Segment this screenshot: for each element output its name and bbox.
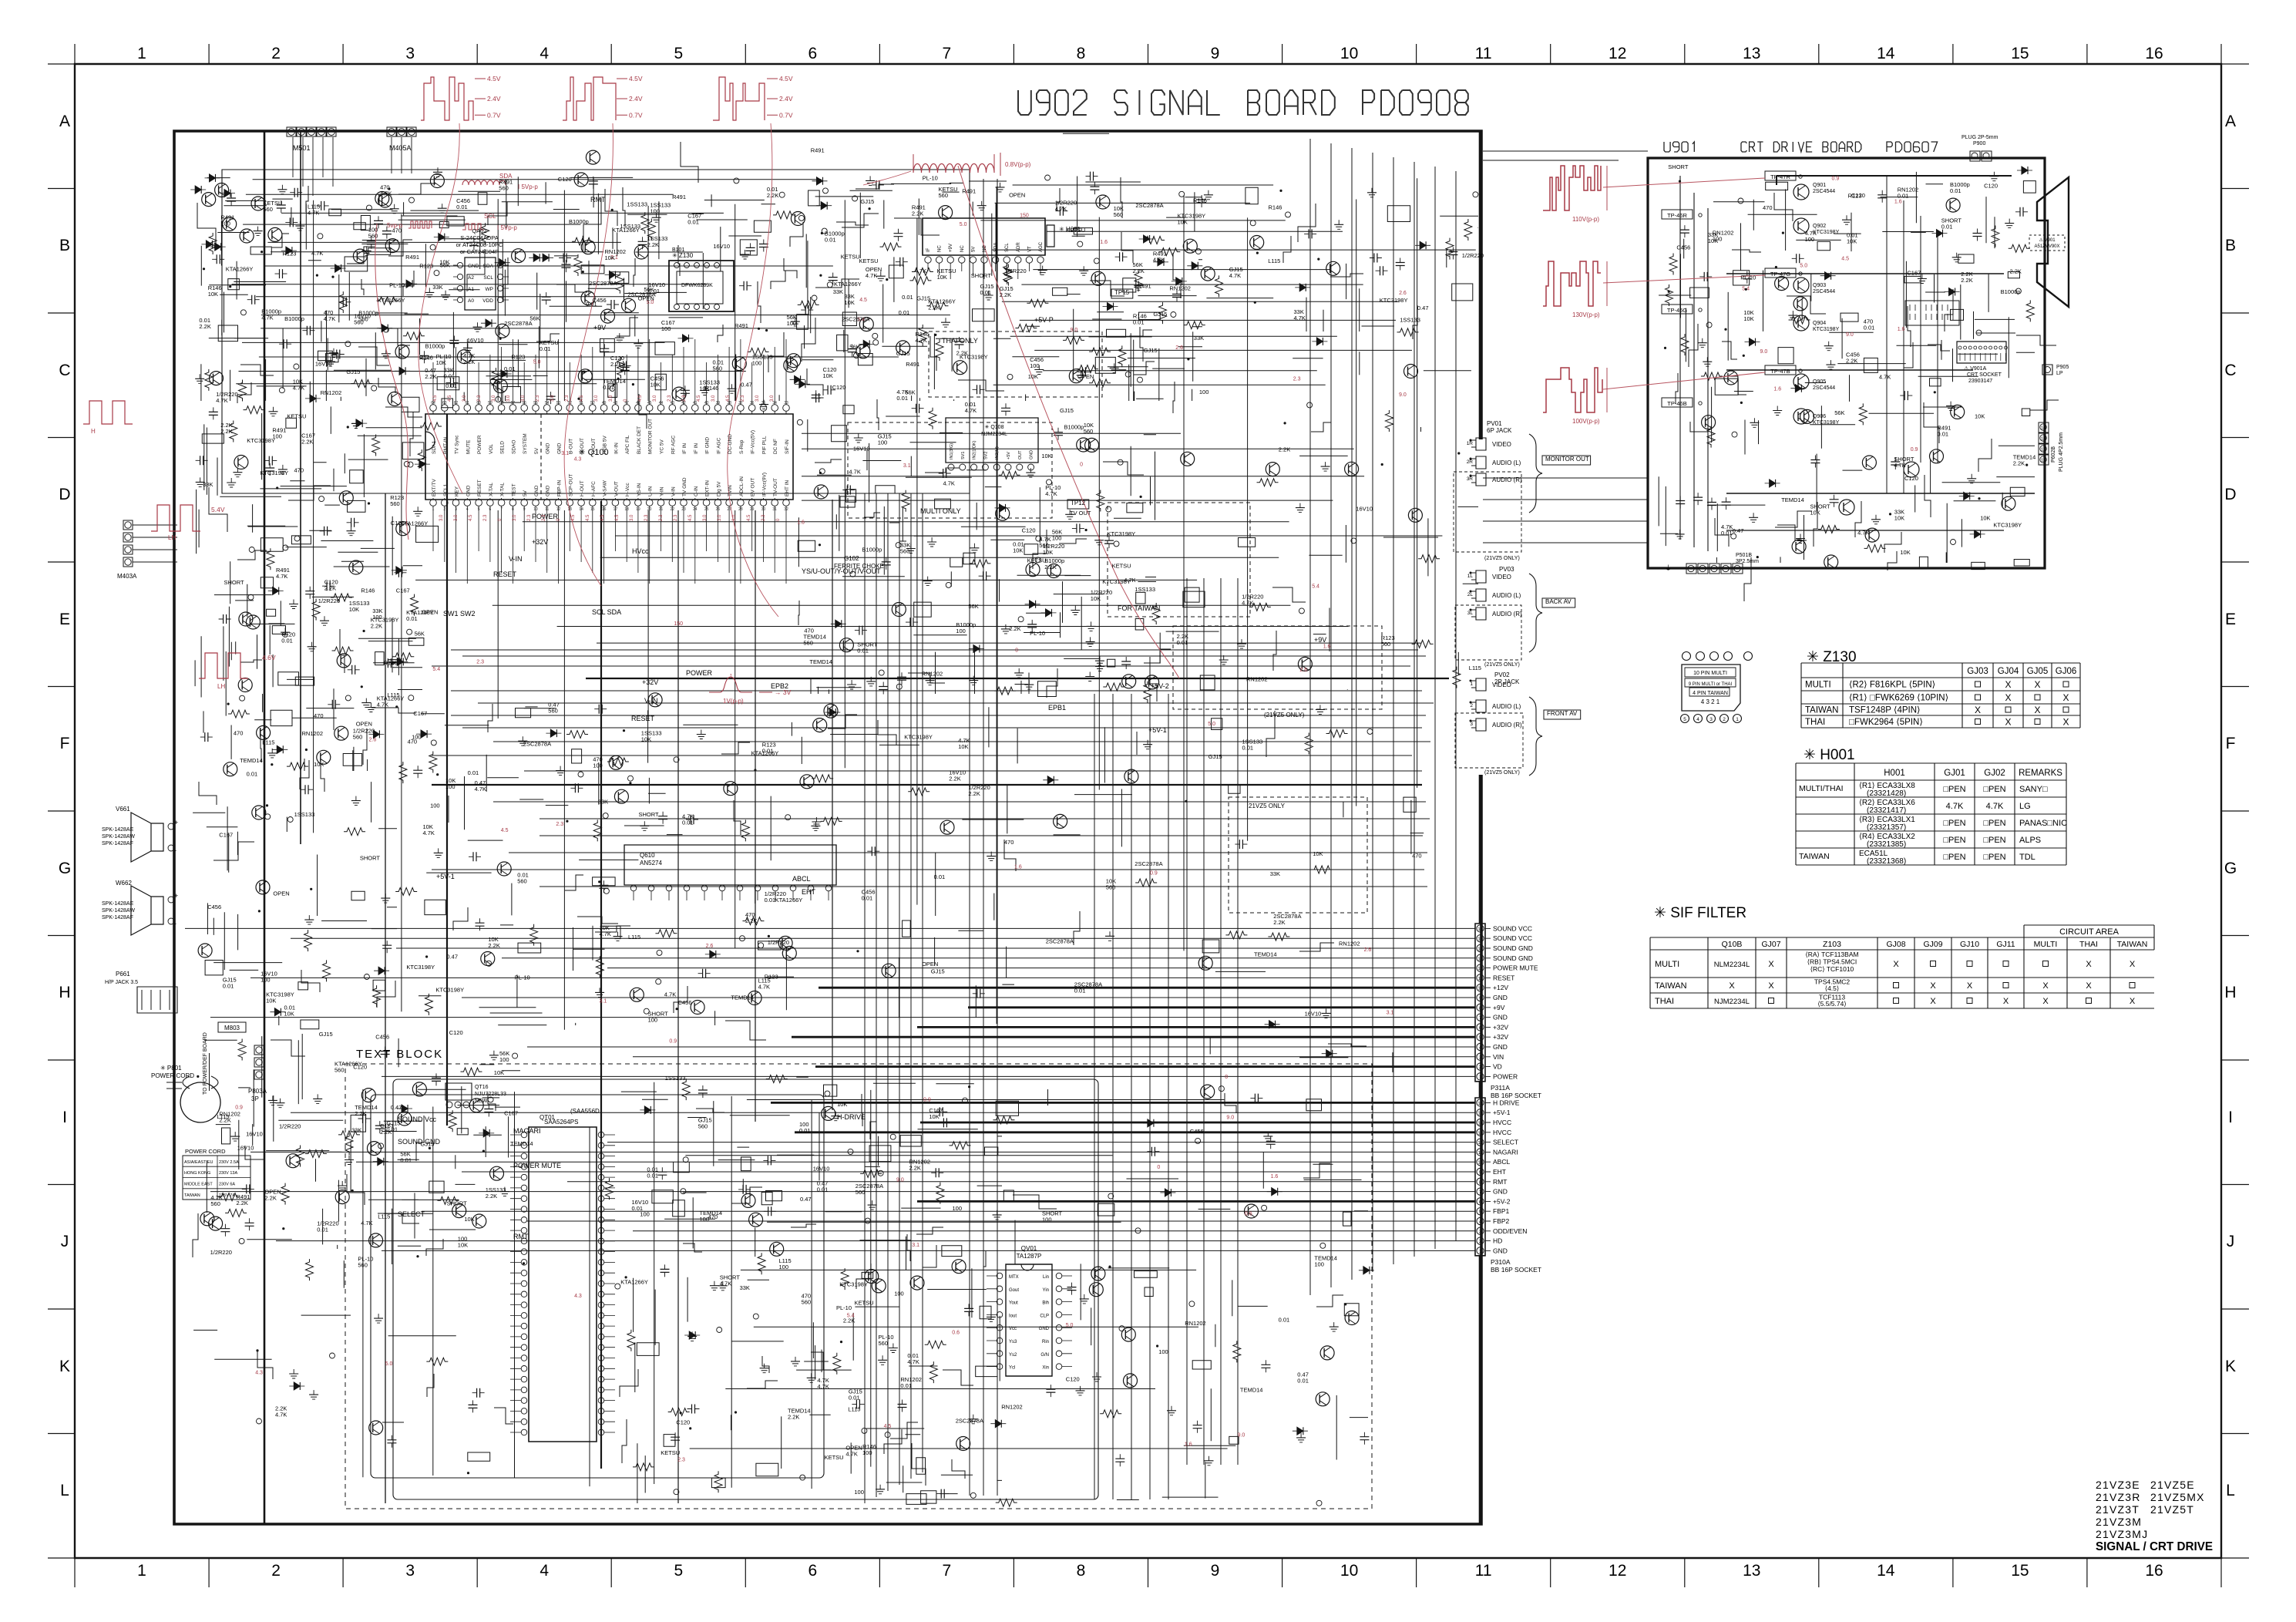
svg-text:TEST: TEST <box>511 483 516 496</box>
svg-text:56K: 56K <box>968 603 978 610</box>
svg-text:KTC3198Y: KTC3198Y <box>406 964 435 971</box>
svg-text:SDA: SDA <box>994 243 999 252</box>
svg-text:0.01: 0.01 <box>445 382 457 389</box>
svg-text:100: 100 <box>661 325 671 332</box>
svg-text:P661: P661 <box>116 971 130 978</box>
svg-text:11: 11 <box>1475 1562 1492 1580</box>
svg-text:5.4: 5.4 <box>432 667 440 672</box>
svg-text:TV OUT: TV OUT <box>1070 510 1091 517</box>
svg-text:ADR: ADR <box>1017 242 1021 252</box>
svg-text:REMARKS: REMARKS <box>2019 769 2062 778</box>
svg-text:ODD/EVEN: ODD/EVEN <box>1493 1227 1527 1235</box>
svg-text:16V10: 16V10 <box>1356 506 1373 513</box>
svg-text:100: 100 <box>779 1264 789 1270</box>
svg-text:35: 35 <box>761 401 766 405</box>
svg-text:31: 31 <box>772 507 777 512</box>
svg-text:SCL1: SCL1 <box>443 483 449 496</box>
svg-text:2SC2878A: 2SC2878A <box>1046 937 1074 944</box>
svg-text:470: 470 <box>294 466 304 473</box>
svg-text:560: 560 <box>803 640 813 647</box>
svg-text:3L: 3L <box>1467 611 1474 616</box>
svg-text:B1000p: B1000p <box>569 218 589 225</box>
svg-text:0: 0 <box>1080 463 1083 468</box>
svg-text:Rin: Rin <box>1042 1340 1049 1344</box>
svg-text:6: 6 <box>808 1562 817 1580</box>
svg-text:6: 6 <box>808 45 817 62</box>
svg-text:Ι 5Vp-p: Ι 5Vp-p <box>497 224 517 231</box>
svg-text:⟨RB⟩ TPS4.5MCI: ⟨RB⟩ TPS4.5MCI <box>1807 958 1857 966</box>
svg-text:RN1202: RN1202 <box>1339 941 1360 947</box>
svg-text:9: 9 <box>1211 1562 1220 1580</box>
svg-text:15: 15 <box>2011 1562 2029 1580</box>
svg-text:RESET: RESET <box>631 715 655 722</box>
svg-text:POWER CORD: POWER CORD <box>151 1072 194 1079</box>
svg-text:3.0: 3.0 <box>630 514 634 521</box>
svg-text:1/2R220: 1/2R220 <box>1462 252 1484 259</box>
svg-text:100V(p-p): 100V(p-p) <box>1572 418 1600 425</box>
svg-text:KETSU: KETSU <box>859 257 879 264</box>
svg-text:230V 6A: 230V 6A <box>219 1183 235 1187</box>
svg-text:4.7K: 4.7K <box>1242 599 1253 606</box>
svg-text:5: 5 <box>1479 1210 1481 1215</box>
svg-text:2.6: 2.6 <box>369 738 377 743</box>
svg-text:(21VZ5 ONLY): (21VZ5 ONLY) <box>1264 712 1305 718</box>
svg-text:13: 13 <box>1743 45 1760 62</box>
svg-text:16V10: 16V10 <box>246 1131 263 1138</box>
svg-text:AUDIO (L): AUDIO (L) <box>1492 459 1521 466</box>
svg-text:100: 100 <box>953 1205 963 1212</box>
svg-text:HVcc: HVcc <box>632 547 649 555</box>
svg-text:1.6: 1.6 <box>797 520 805 526</box>
svg-text:VT: VT <box>1027 246 1032 252</box>
svg-text:4.7K: 4.7K <box>293 384 304 391</box>
svg-text:11: 11 <box>2041 459 2046 463</box>
svg-text:0.01: 0.01 <box>799 1127 811 1134</box>
svg-text:L: L <box>2226 1482 2235 1499</box>
svg-text:0: 0 <box>1157 1165 1160 1170</box>
svg-text:4.3: 4.3 <box>574 1294 582 1299</box>
svg-text:OUT: OUT <box>1018 450 1023 459</box>
svg-text:RN1202: RN1202 <box>1185 1320 1206 1327</box>
svg-text:100: 100 <box>220 220 230 227</box>
svg-text:1/2R220: 1/2R220 <box>1004 268 1026 274</box>
svg-text:X: X <box>2062 692 2069 703</box>
svg-text:0.01: 0.01 <box>1297 1377 1309 1384</box>
svg-text:ALPS: ALPS <box>2019 836 2041 845</box>
svg-text:GJ05: GJ05 <box>2027 667 2049 676</box>
svg-text:MONITOR OUT: MONITOR OUT <box>648 419 654 454</box>
svg-text:AUDIO (R): AUDIO (R) <box>1492 722 1522 729</box>
svg-text:C120: C120 <box>1851 192 1865 199</box>
svg-text:C167: C167 <box>219 832 233 839</box>
svg-text:R491: R491 <box>962 188 976 195</box>
svg-text:GND: GND <box>466 485 471 496</box>
svg-text:F: F <box>60 735 70 752</box>
svg-text:5.0: 5.0 <box>533 360 541 365</box>
svg-text:6: 6 <box>1479 1200 1481 1205</box>
svg-text:7: 7 <box>500 507 503 512</box>
svg-text:560: 560 <box>499 184 509 191</box>
svg-text:2.3: 2.3 <box>476 660 484 665</box>
svg-text:X: X <box>2062 717 2069 728</box>
svg-text:TAIWAN: TAIWAN <box>184 1193 200 1198</box>
svg-text:9: 9 <box>523 507 526 512</box>
svg-text:(SAA556D: (SAA556D <box>570 1108 600 1115</box>
svg-text:TA1287P: TA1287P <box>1017 1253 1042 1260</box>
svg-text:H/P JACK 3.5: H/P JACK 3.5 <box>105 980 138 985</box>
svg-text:X: X <box>2130 960 2136 969</box>
svg-text:G: G <box>2224 860 2237 877</box>
svg-text:+5V-P: +5V-P <box>1034 316 1054 324</box>
svg-text:C120: C120 <box>832 384 846 391</box>
svg-text:2: 2 <box>1479 1065 1481 1070</box>
svg-text:KTA1266Y: KTA1266Y <box>226 265 254 272</box>
svg-text:15: 15 <box>1477 1112 1482 1116</box>
svg-text:SPK-1428AE: SPK-1428AE <box>102 901 134 907</box>
svg-text:4.5: 4.5 <box>448 395 452 402</box>
svg-text:Q905: Q905 <box>1813 379 1826 385</box>
svg-text:2SC4544: 2SC4544 <box>1813 189 1835 194</box>
svg-text:16: 16 <box>602 507 607 512</box>
svg-text:DC-GND: DC-GND <box>728 434 733 454</box>
svg-text:KETSU: KETSU <box>661 1449 680 1456</box>
svg-text:□PEN: □PEN <box>1983 785 2005 794</box>
svg-text:+32V: +32V <box>642 678 658 686</box>
svg-text:2.2K: 2.2K <box>788 1414 799 1421</box>
svg-text:X: X <box>1893 960 1899 969</box>
svg-text:2.6: 2.6 <box>1364 947 1372 953</box>
svg-text:2.2K: 2.2K <box>949 776 960 782</box>
svg-text:NJM2234L: NJM2234L <box>981 432 1007 437</box>
svg-text:4.7K: 4.7K <box>664 991 676 998</box>
svg-text:IF GND: IF GND <box>705 437 711 454</box>
svg-text:4.7K: 4.7K <box>308 210 319 217</box>
svg-text:GND: GND <box>546 443 551 454</box>
svg-text:0.6: 0.6 <box>952 1330 960 1335</box>
svg-text:2.3: 2.3 <box>483 514 488 521</box>
svg-text:(23321417): (23321417) <box>1867 806 1906 815</box>
svg-text:(23321357): (23321357) <box>1867 823 1906 832</box>
svg-text:GJ03: GJ03 <box>1967 667 1988 676</box>
svg-text:IN2(1/DK): IN2(1/DK) <box>973 440 977 459</box>
svg-text:R491: R491 <box>906 361 919 368</box>
svg-text:3.0: 3.0 <box>506 395 511 402</box>
svg-text:0.01: 0.01 <box>1133 319 1145 326</box>
svg-text:4.7K: 4.7K <box>276 573 287 580</box>
svg-text:5.0: 5.0 <box>960 222 967 227</box>
svg-text:4.7K: 4.7K <box>600 930 611 937</box>
svg-text:2.2K: 2.2K <box>486 1193 497 1200</box>
svg-text:I: I <box>62 1109 67 1126</box>
svg-text:2SC2878A: 2SC2878A <box>589 280 617 287</box>
svg-text:C167: C167 <box>504 1110 518 1117</box>
svg-text:100: 100 <box>1052 534 1062 541</box>
svg-text:NAGARI: NAGARI <box>1493 1148 1518 1156</box>
svg-text:SOUND GND: SOUND GND <box>1493 954 1533 962</box>
svg-text:0.7V: 0.7V <box>779 111 793 119</box>
svg-text:ASIA/EAST EU: ASIA/EAST EU <box>184 1160 213 1165</box>
svg-text:5.4: 5.4 <box>1312 584 1319 589</box>
svg-text:V-IN: V-IN <box>644 697 658 705</box>
svg-text:11: 11 <box>1475 45 1492 62</box>
svg-text:21VZ3R: 21VZ3R <box>2096 1491 2141 1503</box>
svg-text:0.47: 0.47 <box>1733 527 1744 534</box>
svg-text:1SS133: 1SS133 <box>294 811 315 818</box>
svg-text:R146: R146 <box>705 385 719 392</box>
svg-text:10K: 10K <box>1028 373 1038 380</box>
svg-text:21: 21 <box>659 507 664 512</box>
svg-text:2: 2 <box>443 507 445 512</box>
svg-text:⟨R2⟩ F816KPL ⟨5PIN⟩: ⟨R2⟩ F816KPL ⟨5PIN⟩ <box>1849 680 1935 690</box>
svg-text:560: 560 <box>900 548 910 555</box>
svg-text:PANAS□NIC: PANAS□NIC <box>2019 819 2067 828</box>
svg-text:21VZ3MJ: 21VZ3MJ <box>2096 1528 2148 1540</box>
svg-text:11: 11 <box>1478 1151 1483 1156</box>
svg-text:2.2K: 2.2K <box>1133 268 1145 274</box>
svg-text:KTC3198Y: KTC3198Y <box>1813 230 1840 235</box>
svg-text:J: J <box>2227 1233 2235 1250</box>
svg-text:4.7K: 4.7K <box>311 250 323 257</box>
svg-text:4.5: 4.5 <box>697 395 701 402</box>
svg-text:1.6: 1.6 <box>1898 327 1905 332</box>
svg-text:X: X <box>2042 981 2049 991</box>
svg-text:21VZ5MX: 21VZ5MX <box>2150 1491 2205 1503</box>
svg-text:Y-IN: Y-IN <box>660 486 665 496</box>
svg-text:4.7K: 4.7K <box>849 468 860 475</box>
svg-text:OPEN: OPEN <box>922 961 938 967</box>
svg-text:L115: L115 <box>262 739 274 746</box>
svg-text:P311A: P311A <box>1491 1084 1510 1092</box>
svg-text:44: 44 <box>659 401 664 405</box>
svg-text:2.3: 2.3 <box>667 395 672 402</box>
svg-text:TAIWAN: TAIWAN <box>1805 706 1838 715</box>
svg-text:10K: 10K <box>1847 237 1857 244</box>
svg-text:150: 150 <box>1020 214 1029 219</box>
svg-text:5.4V: 5.4V <box>211 506 225 513</box>
svg-text:C456: C456 <box>678 999 692 1006</box>
svg-text:2.4V: 2.4V <box>487 95 501 103</box>
svg-text:560: 560 <box>879 1340 889 1347</box>
svg-text:0: 0 <box>1225 1075 1228 1080</box>
svg-text:0.9: 0.9 <box>1832 176 1840 181</box>
svg-text:4.5: 4.5 <box>501 828 509 833</box>
svg-text:470: 470 <box>234 729 244 736</box>
svg-text:4.7K: 4.7K <box>1124 577 1135 584</box>
svg-text:10K: 10K <box>1313 850 1323 857</box>
svg-text:3.0: 3.0 <box>462 395 467 402</box>
svg-text:R146: R146 <box>1193 197 1207 204</box>
svg-text:3.1: 3.1 <box>912 1243 919 1248</box>
svg-text:YS-IN: YS-IN <box>637 483 642 496</box>
svg-text:12: 12 <box>2041 448 2046 453</box>
svg-text:C-IN: C-IN <box>694 486 699 496</box>
svg-text:7: 7 <box>1479 1016 1481 1021</box>
svg-text:16V10: 16V10 <box>853 446 870 453</box>
svg-text:B: B <box>59 237 70 254</box>
svg-text:21VZ5E: 21VZ5E <box>2150 1479 2195 1491</box>
svg-text:POWER: POWER <box>477 435 482 454</box>
svg-text:0.01: 0.01 <box>603 384 614 391</box>
svg-text:C120: C120 <box>1066 1375 1080 1382</box>
svg-text:X: X <box>2086 981 2092 991</box>
svg-text:2.3: 2.3 <box>556 822 563 827</box>
svg-text:3P: 3P <box>251 1095 259 1102</box>
svg-text:4.7K: 4.7K <box>1879 374 1891 381</box>
svg-text:(21VZ5 ONLY): (21VZ5 ONLY) <box>1484 662 1520 668</box>
svg-text:10: 10 <box>1340 1562 1358 1580</box>
svg-text:8: 8 <box>1077 1562 1086 1580</box>
svg-text:2.3: 2.3 <box>741 395 745 402</box>
svg-text:56K: 56K <box>849 343 859 350</box>
svg-text:1/2R220: 1/2R220 <box>318 597 340 604</box>
svg-text:V-IN: V-IN <box>671 486 676 496</box>
svg-text:X: X <box>1930 981 1936 991</box>
svg-text:C167: C167 <box>1907 270 1921 277</box>
svg-text:100: 100 <box>445 783 456 790</box>
svg-text:3R: 3R <box>1467 476 1474 482</box>
svg-text:X: X <box>2034 705 2040 715</box>
svg-text:KTA1266Y: KTA1266Y <box>834 281 862 288</box>
svg-text:2.3: 2.3 <box>565 395 570 402</box>
svg-text:GJ15: GJ15 <box>896 350 910 357</box>
svg-text:2.2K: 2.2K <box>488 942 499 949</box>
svg-text:B1000p: B1000p <box>425 342 445 349</box>
svg-text:KTC3198Y: KTC3198Y <box>1993 521 2022 528</box>
svg-text:10K: 10K <box>823 372 833 379</box>
svg-text:FOR TAIWAN: FOR TAIWAN <box>1118 604 1160 612</box>
svg-text:2.3: 2.3 <box>536 395 540 402</box>
svg-text:0.01: 0.01 <box>400 1157 412 1164</box>
svg-text:□PEN: □PEN <box>1943 819 1965 828</box>
svg-text:58: 58 <box>499 401 504 405</box>
svg-text:TP-47R: TP-47R <box>1770 173 1790 180</box>
svg-text:24: 24 <box>693 507 698 512</box>
svg-text:X: X <box>2003 997 2009 1006</box>
svg-text:L115: L115 <box>628 934 640 941</box>
svg-text:+9V: +9V <box>1493 1004 1505 1011</box>
svg-text:13: 13 <box>1477 957 1482 961</box>
svg-text:10K: 10K <box>1894 515 1904 522</box>
svg-text:TVIN: TVIN <box>728 485 733 496</box>
svg-text:4.5: 4.5 <box>580 395 584 402</box>
svg-text:1SS133: 1SS133 <box>665 1075 686 1082</box>
svg-text:L115: L115 <box>378 1213 390 1220</box>
svg-text:2.2K: 2.2K <box>371 623 382 630</box>
svg-text:RN1202: RN1202 <box>1246 676 1268 683</box>
svg-text:4.7K: 4.7K <box>907 1358 919 1365</box>
svg-text:KTA1266Y: KTA1266Y <box>620 1279 648 1286</box>
svg-text:4: 4 <box>540 1562 549 1580</box>
svg-text:IF IN: IF IN <box>682 443 687 454</box>
svg-text:10K: 10K <box>284 1011 294 1018</box>
svg-text:22: 22 <box>671 507 675 512</box>
svg-text:SV1: SV1 <box>961 452 966 459</box>
svg-text:GJ04: GJ04 <box>1998 667 2019 676</box>
svg-text:X: X <box>2005 679 2011 690</box>
svg-text:2.6: 2.6 <box>1299 668 1307 673</box>
svg-text:2.4V: 2.4V <box>779 95 793 103</box>
svg-text:100: 100 <box>1314 1261 1324 1268</box>
svg-text:✳ H001: ✳ H001 <box>1804 747 1855 763</box>
svg-text:0.47: 0.47 <box>1417 305 1429 311</box>
svg-text:4.7K: 4.7K <box>423 830 435 836</box>
svg-text:14: 14 <box>579 507 583 512</box>
svg-text:EV OUT: EV OUT <box>751 478 756 496</box>
svg-text:2.2K: 2.2K <box>355 1110 366 1117</box>
svg-text:1R: 1R <box>1467 441 1474 446</box>
svg-text:SELECT: SELECT <box>398 1210 425 1218</box>
svg-text:0.01: 0.01 <box>817 1186 829 1193</box>
svg-text:2.2K: 2.2K <box>2013 459 2025 466</box>
svg-text:33K: 33K <box>740 1284 750 1291</box>
svg-text:470: 470 <box>1763 204 1773 211</box>
svg-text:1/2R220: 1/2R220 <box>210 1249 232 1256</box>
svg-text:SHORT: SHORT <box>971 272 992 279</box>
svg-text:GJ15: GJ15 <box>1144 347 1158 354</box>
svg-text:1: 1 <box>1479 1250 1481 1254</box>
svg-text:33K: 33K <box>432 284 442 291</box>
svg-text:9.0: 9.0 <box>1399 392 1407 398</box>
svg-text:4.5: 4.5 <box>859 298 867 303</box>
svg-text:3.0: 3.0 <box>732 514 737 521</box>
svg-text:54: 54 <box>545 401 550 405</box>
svg-text:R491: R491 <box>1138 282 1151 289</box>
svg-text:0.7V: 0.7V <box>487 111 501 119</box>
svg-text:GND: GND <box>1030 450 1034 459</box>
svg-text:POWER: POWER <box>686 669 713 677</box>
svg-text:21VZ3T: 21VZ3T <box>2096 1503 2140 1516</box>
svg-text:1: 1 <box>1470 681 1473 687</box>
svg-text:SYSTEM: SYSTEM <box>523 433 528 454</box>
svg-text:0.01: 0.01 <box>900 1382 912 1389</box>
svg-text:2.6: 2.6 <box>1399 291 1407 296</box>
svg-text:P310A: P310A <box>1491 1258 1511 1266</box>
svg-text:R123: R123 <box>283 251 297 257</box>
svg-text:7: 7 <box>943 1562 952 1580</box>
svg-text:16: 16 <box>2145 1562 2163 1580</box>
svg-text:3.0: 3.0 <box>711 395 716 402</box>
svg-text:1.6: 1.6 <box>1271 1174 1279 1179</box>
svg-text:100: 100 <box>412 734 422 741</box>
svg-text:2SC2878A: 2SC2878A <box>1135 202 1163 209</box>
svg-text:4.7K: 4.7K <box>1894 462 1905 469</box>
svg-text:SCP-OUT: SCP-OUT <box>568 474 573 496</box>
svg-text:36: 36 <box>750 401 755 405</box>
svg-text:3.0: 3.0 <box>770 395 775 402</box>
svg-text:5.0: 5.0 <box>385 1361 393 1367</box>
svg-text:GND: GND <box>534 485 540 496</box>
svg-text:THAI ONLY: THAI ONLY <box>942 337 978 345</box>
svg-text:B1000p: B1000p <box>1064 423 1084 430</box>
svg-text:2.2K: 2.2K <box>237 1200 248 1206</box>
svg-text:Q902: Q902 <box>1813 224 1826 229</box>
svg-text:Ycl: Ycl <box>1009 1366 1015 1371</box>
svg-text:4.5: 4.5 <box>747 514 751 521</box>
svg-text:+5V-2: +5V-2 <box>1493 1197 1511 1205</box>
svg-text:10K: 10K <box>929 1113 939 1120</box>
svg-text:C456: C456 <box>207 904 221 910</box>
svg-text:14: 14 <box>1877 45 1895 62</box>
svg-text:HD: HD <box>1493 1237 1502 1245</box>
svg-text:PL-10: PL-10 <box>923 175 938 182</box>
svg-text:560: 560 <box>334 1067 345 1074</box>
svg-text:IN1(3/G): IN1(3/G) <box>950 443 954 459</box>
svg-text:G/N: G/N <box>1040 1353 1049 1358</box>
svg-text:C120: C120 <box>558 176 572 183</box>
svg-text:L115: L115 <box>1268 257 1280 264</box>
svg-text:PLUG 2P-5mm: PLUG 2P-5mm <box>1962 135 1998 140</box>
svg-text:16: 16 <box>1477 927 1482 932</box>
